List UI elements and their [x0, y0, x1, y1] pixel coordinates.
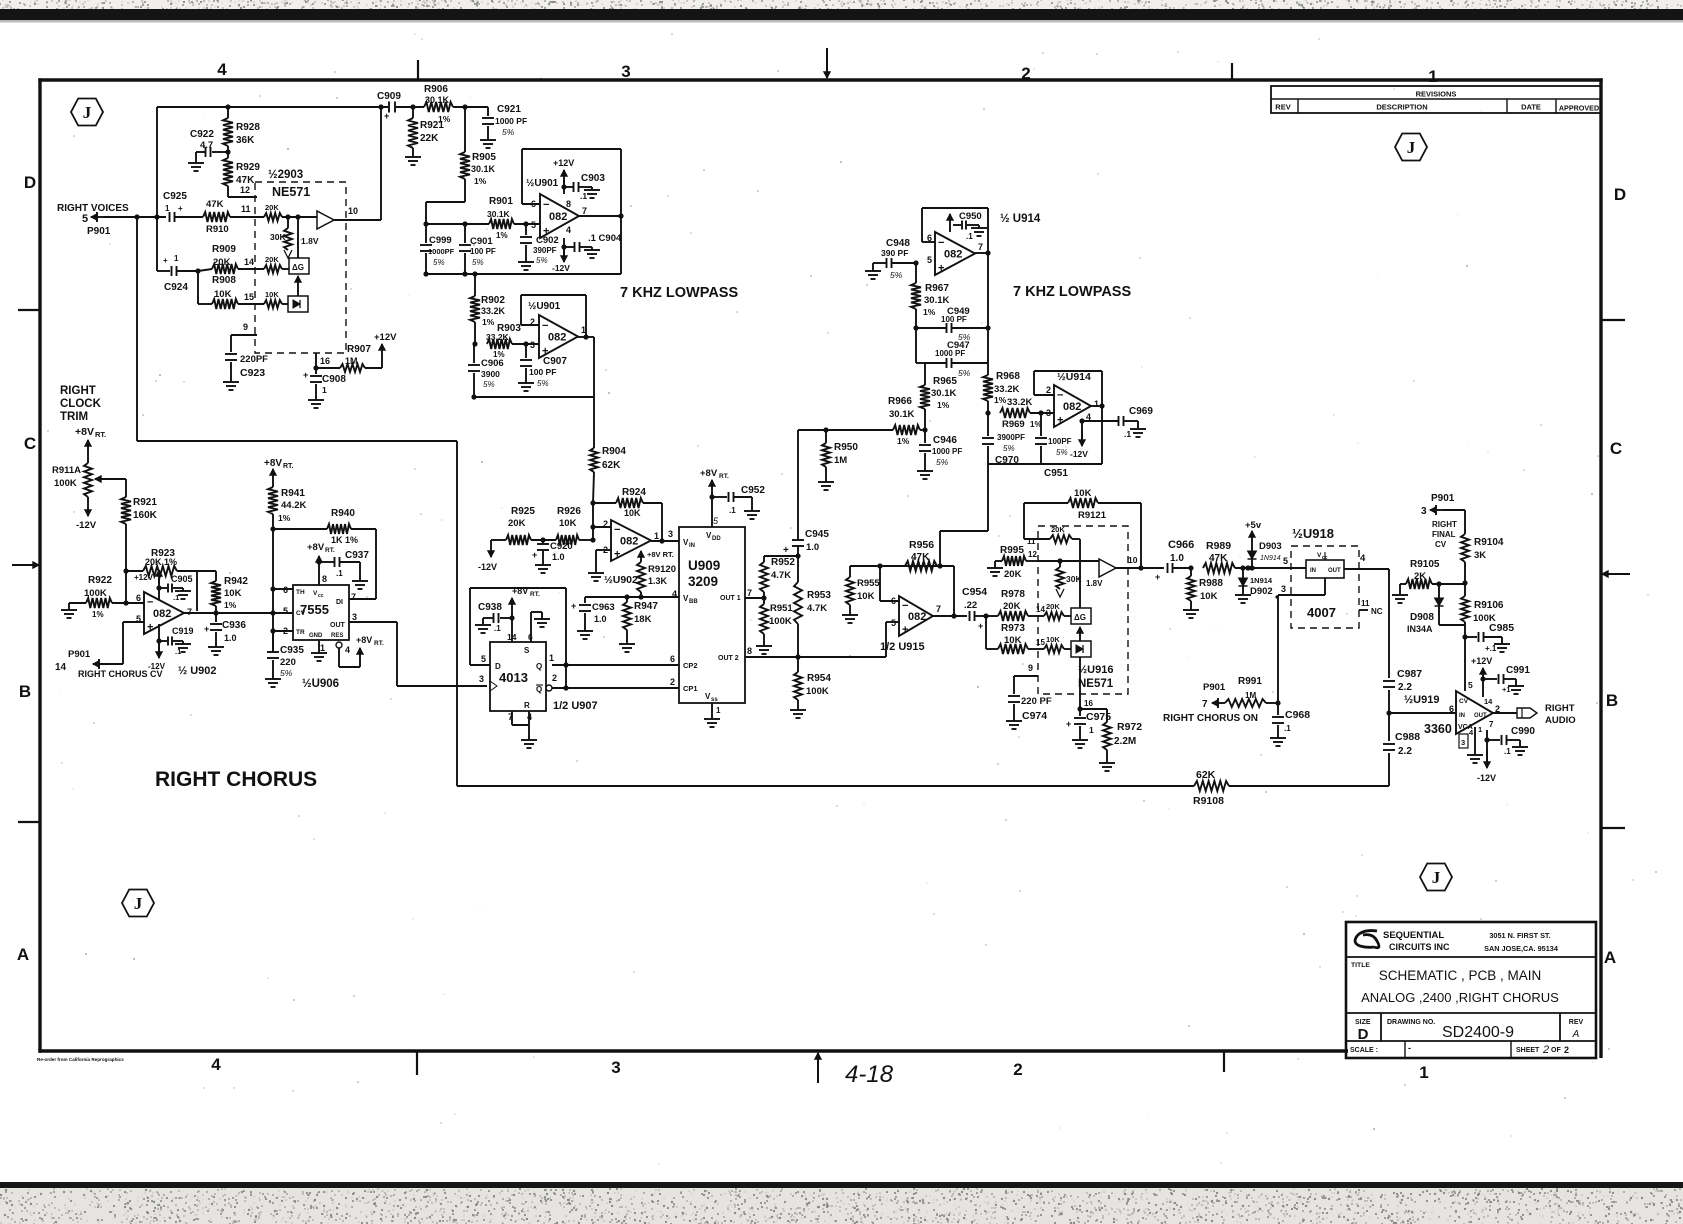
svg-text:C902: C902 [536, 235, 559, 246]
svg-text:C988: C988 [1395, 731, 1420, 743]
svg-text:+: + [902, 624, 908, 636]
svg-text:-12V: -12V [1477, 773, 1496, 783]
svg-text:5%: 5% [280, 668, 293, 678]
svg-text:R989: R989 [1206, 540, 1231, 552]
svg-text:2.2: 2.2 [1398, 746, 1412, 757]
pin 16 capacitor C975 [1079, 694, 1081, 716]
svg-text:3: 3 [1281, 584, 1286, 594]
svg-text:J: J [1432, 868, 1441, 887]
svg-text:16: 16 [1084, 699, 1093, 708]
resistor R906 30.1K [424, 102, 453, 112]
svg-text:+12V: +12V [1471, 656, 1492, 666]
op-amp U901a 082 [540, 194, 579, 238]
svg-text:2: 2 [603, 519, 608, 529]
capacitor C905 [156, 585, 161, 590]
resistor R903 33.2K [472, 341, 477, 346]
resistor R953 4.7K [797, 556, 799, 582]
svg-text:IN34A: IN34A [1407, 624, 1433, 634]
svg-text:OUT 2: OUT 2 [718, 655, 739, 662]
svg-text:+8V: +8V [75, 426, 94, 438]
wire lowpass1 input rail [426, 223, 489, 225]
wire dry-signal drop x457 [456, 441, 458, 786]
registration arrow top center [826, 48, 828, 78]
capacitor C945 1.0 [792, 539, 804, 541]
svg-text:½U901: ½U901 [528, 301, 561, 312]
svg-text:ΔG: ΔG [1074, 613, 1086, 622]
svg-text:1.0: 1.0 [552, 552, 565, 562]
svg-text:20K: 20K [265, 255, 279, 264]
svg-text:J: J [1407, 138, 1416, 157]
svg-text:R907: R907 [347, 344, 371, 355]
svg-text:RIGHT CHORUS: RIGHT CHORUS [155, 768, 317, 791]
svg-text:R: R [524, 701, 530, 710]
svg-text:5: 5 [283, 606, 288, 616]
svg-text:4-18: 4-18 [845, 1061, 894, 1088]
svg-text:R9108: R9108 [1193, 795, 1224, 807]
svg-text:1: 1 [1089, 725, 1094, 735]
svg-text:RT.: RT. [530, 591, 540, 598]
svg-text:10K: 10K [1074, 488, 1092, 499]
wire pin 6 ground [530, 612, 532, 642]
svg-text:.22: .22 [964, 600, 977, 611]
drawing border frame [38, 78, 41, 1052]
svg-text:RIGHT VOICES: RIGHT VOICES [57, 203, 129, 214]
svg-text:1%: 1% [1030, 420, 1042, 429]
svg-text:ANALOG ,2400 ,RIGHT CHORUS: ANALOG ,2400 ,RIGHT CHORUS [1361, 990, 1559, 1005]
capacitor C921 1000PF [487, 107, 489, 116]
svg-text:R904: R904 [602, 446, 626, 457]
svg-text:1: 1 [654, 531, 659, 541]
svg-text:082: 082 [153, 608, 171, 620]
svg-text:R967: R967 [925, 283, 949, 294]
wire S pullup +8VRT [511, 618, 513, 642]
svg-text:½U906: ½U906 [302, 678, 339, 690]
resistor R966 30.1K [893, 425, 920, 435]
svg-text:R908: R908 [212, 275, 236, 286]
capacitor C947 1000PF [925, 362, 946, 364]
svg-text:3900: 3900 [481, 369, 500, 379]
capacitor C938 [500, 617, 512, 619]
svg-text:47K: 47K [1209, 553, 1228, 564]
svg-text:RT.: RT. [95, 430, 106, 439]
resistor R904 62K [593, 446, 595, 448]
svg-text:B: B [19, 682, 31, 701]
svg-text:RES: RES [331, 633, 343, 639]
svg-text:+8V: +8V [356, 635, 372, 645]
svg-text:C924: C924 [164, 282, 188, 293]
svg-text:C906: C906 [481, 358, 504, 369]
wire rect2 to pin 16 [1079, 657, 1081, 694]
svg-text:−: − [1057, 389, 1063, 401]
svg-text:.1: .1 [966, 232, 973, 241]
svg-text:+12V: +12V [374, 332, 397, 343]
svg-text:Q: Q [536, 662, 542, 671]
svg-text:47K: 47K [206, 199, 224, 210]
resistor 20K dG2 [1044, 612, 1064, 620]
pin 11 NC U918 [1359, 609, 1368, 611]
svg-text:APPROVED: APPROVED [1559, 104, 1599, 113]
capacitor C966 1.0 [1141, 567, 1164, 569]
ground C922 [195, 160, 197, 163]
svg-text:082: 082 [944, 249, 962, 261]
svg-text:20K: 20K [1003, 601, 1021, 612]
svg-text:C922: C922 [190, 129, 214, 140]
wire lowpass2 to U915 [940, 530, 988, 532]
svg-text:C925: C925 [163, 191, 187, 202]
svg-text:R978: R978 [1001, 589, 1025, 600]
capacitor C963 1.0 [584, 597, 586, 603]
svg-text:R906: R906 [424, 84, 448, 95]
svg-text:OF: OF [1551, 1047, 1561, 1054]
wire R pins to ground [511, 711, 513, 725]
capacitor C987 2.2 [1383, 680, 1395, 682]
svg-text:1.0: 1.0 [224, 633, 237, 643]
resistor R950 1M [823, 427, 828, 432]
svg-text:D: D [1358, 1026, 1369, 1043]
svg-text:C963: C963 [592, 602, 615, 613]
svg-text:R973: R973 [1001, 623, 1025, 634]
svg-text:R910: R910 [206, 224, 229, 235]
svg-text:33.2K: 33.2K [481, 306, 506, 316]
svg-text:RIGHT: RIGHT [60, 385, 96, 397]
svg-text:1.0: 1.0 [1170, 553, 1184, 564]
capacitor C901 100PF [464, 224, 466, 243]
svg-text:P901: P901 [1203, 682, 1226, 693]
wire lowpass1b bottom rail [474, 396, 594, 398]
resistor R9104 3K [1461, 534, 1469, 562]
svg-text:½U901: ½U901 [526, 178, 559, 189]
svg-text:−: − [902, 600, 908, 612]
svg-text:6: 6 [283, 585, 288, 595]
svg-text:DRAWING NO.: DRAWING NO. [1387, 1019, 1435, 1026]
capacitor C969 [1118, 416, 1120, 426]
resistor R929 47K [223, 158, 233, 186]
svg-text:SHEET: SHEET [1516, 1047, 1540, 1054]
capacitor C951 100PF [1040, 413, 1042, 436]
svg-text:1%: 1% [994, 395, 1007, 405]
wire U914a feedback loop [922, 207, 988, 209]
svg-text:3: 3 [621, 62, 630, 81]
svg-text:SEQUENTIAL: SEQUENTIAL [1383, 930, 1444, 941]
svg-text:8: 8 [566, 199, 571, 209]
svg-text:10: 10 [1128, 555, 1138, 565]
flip-flop U907 4013 [490, 642, 546, 711]
wire U902b plus input ground [596, 549, 611, 551]
svg-text:+12V: +12V [553, 158, 574, 168]
svg-text:1: 1 [1428, 67, 1437, 86]
zone tick top 2-1 [1231, 63, 1233, 80]
svg-text:3: 3 [668, 529, 673, 539]
svg-text:1%: 1% [92, 610, 104, 619]
wire 7555 CV [270, 610, 275, 615]
resistor R926 10K [556, 535, 579, 545]
svg-text:3051 N. FIRST ST.: 3051 N. FIRST ST. [1489, 931, 1550, 940]
capacitor C937 [319, 561, 334, 563]
wire 7555 OUT to 4013 clock [349, 621, 397, 623]
svg-text:5%: 5% [502, 127, 515, 137]
svg-text:.1: .1 [580, 191, 587, 201]
svg-text:6: 6 [136, 593, 141, 603]
svg-text:-12V: -12V [552, 263, 570, 273]
wire 7555 TR [270, 628, 275, 633]
svg-text:−: − [543, 199, 549, 211]
capacitor C991 [1480, 676, 1485, 681]
resistor R940 1K [327, 524, 351, 534]
wire dG2 up to opamp [1079, 561, 1081, 608]
svg-text:18K: 18K [634, 614, 652, 625]
svg-text:D908: D908 [1410, 612, 1434, 623]
wire lowpass1b feedback loop [521, 294, 586, 296]
svg-text:R941: R941 [281, 488, 305, 499]
wire lowpass2 down [987, 464, 989, 531]
zone tick left D-C [18, 309, 40, 311]
wire R905 to lowpass input [426, 201, 465, 203]
svg-text:D: D [495, 662, 501, 671]
registration arrow left center [12, 564, 39, 566]
svg-text:.1: .1 [1284, 724, 1291, 733]
svg-text:REV: REV [1275, 103, 1290, 112]
resistor R952 4.7K [763, 556, 765, 562]
power -12V R925 [490, 540, 492, 557]
svg-text:10K: 10K [559, 518, 577, 529]
svg-text:10K: 10K [224, 588, 242, 599]
svg-text:44.2K: 44.2K [281, 500, 306, 511]
resistor R901 30.1K [489, 219, 514, 229]
svg-text:+.1: +.1 [1485, 644, 1497, 653]
svg-text:+: + [303, 370, 308, 380]
ground R921A [412, 154, 414, 157]
svg-text:+8V: +8V [307, 542, 325, 553]
svg-text:+: + [204, 624, 209, 634]
svg-text:Q: Q [536, 685, 542, 694]
svg-text:-: - [1408, 1043, 1411, 1053]
svg-text:4: 4 [1360, 553, 1366, 564]
wire dG to signal [297, 217, 299, 258]
svg-text:082: 082 [549, 211, 567, 223]
resistor R9121 10K [1023, 503, 1025, 539]
svg-text:R9105: R9105 [1410, 559, 1440, 570]
timer U906 7555 [293, 585, 349, 640]
svg-text:7: 7 [351, 592, 356, 602]
svg-text:9: 9 [1028, 663, 1033, 673]
svg-text:C974: C974 [1022, 710, 1047, 722]
svg-text:30.1K: 30.1K [471, 164, 496, 174]
svg-text:NE571: NE571 [272, 185, 310, 199]
svg-text:R951: R951 [770, 603, 793, 614]
svg-text:10K: 10K [265, 290, 279, 299]
svg-text:SAN JOSE,CA. 95134: SAN JOSE,CA. 95134 [1484, 944, 1559, 953]
wire 7555 TH [270, 586, 275, 591]
svg-text:1.8V: 1.8V [1086, 579, 1103, 588]
svg-text:CV: CV [296, 610, 306, 617]
svg-text:+: + [178, 204, 183, 213]
svg-text:6: 6 [670, 654, 675, 664]
wire pin 3 drop [1277, 595, 1279, 703]
svg-text:+8V: +8V [700, 468, 718, 479]
svg-text:AUDIO: AUDIO [1545, 715, 1576, 726]
resistor 20K dG input [264, 265, 282, 273]
svg-text:22K: 22K [420, 133, 439, 144]
svg-text:47K: 47K [911, 552, 930, 563]
svg-text:5%: 5% [537, 379, 549, 388]
wire rect to dG [297, 276, 299, 296]
svg-text:OUT 1: OUT 1 [720, 595, 741, 602]
svg-text:C987: C987 [1397, 668, 1422, 680]
wire VBB network [585, 596, 679, 598]
capacitor C903 decoupling [561, 184, 566, 189]
svg-text:7: 7 [936, 604, 941, 614]
wire U902b out to VIN [651, 540, 679, 542]
svg-text:20K: 20K [1004, 569, 1022, 580]
svg-text:1.3K: 1.3K [648, 576, 668, 586]
resistor 10K rect input [264, 300, 282, 308]
svg-text:R953: R953 [807, 590, 831, 601]
svg-text:15: 15 [1036, 638, 1045, 647]
svg-text:DD: DD [712, 536, 721, 542]
revisions table [1271, 86, 1601, 113]
resistor R908 10K [197, 271, 199, 304]
diode D902 to ground [1240, 565, 1245, 570]
svg-text:3: 3 [530, 340, 535, 350]
svg-text:A: A [1604, 948, 1616, 967]
svg-text:3360: 3360 [1424, 722, 1452, 736]
svg-text:100PF: 100PF [1048, 437, 1072, 446]
resistor R989 47K [1203, 563, 1235, 573]
wire OUT1 [745, 597, 764, 599]
capacitor C919 -12V U902a [158, 624, 160, 652]
svg-text:33.2K: 33.2K [994, 384, 1019, 395]
wire C945 to mix node [797, 430, 799, 540]
svg-text:SIZE: SIZE [1355, 1019, 1371, 1026]
wire OUT2 to U915 plus [798, 656, 886, 658]
svg-text:5%: 5% [472, 258, 484, 267]
svg-text:FINAL: FINAL [1432, 530, 1456, 539]
resistor R9106 100K [1464, 583, 1466, 596]
svg-text:1%: 1% [482, 317, 495, 327]
svg-text:5: 5 [927, 255, 932, 265]
zone tick top 4-3 [417, 60, 419, 80]
wire R941 to R940 [270, 526, 275, 531]
wire R906 to C921 R905 [453, 106, 488, 108]
capacitor C952 [712, 496, 727, 498]
svg-text:CLOCK: CLOCK [60, 398, 102, 410]
svg-text:RT.: RT. [283, 463, 294, 470]
capacitor C985 [1462, 634, 1467, 639]
zone tick right B-A [1601, 827, 1625, 829]
svg-text:J: J [83, 103, 92, 122]
svg-text:R991: R991 [1238, 676, 1262, 687]
svg-text:D903: D903 [1259, 541, 1282, 552]
svg-text:C907: C907 [543, 356, 567, 367]
wire U903a out pin 10 [334, 219, 381, 221]
svg-text:CP1: CP1 [683, 684, 698, 693]
svg-text:36K: 36K [236, 135, 255, 146]
capacitor C950 [949, 228, 951, 232]
pin 9 capacitor C923 220PF [231, 334, 257, 336]
svg-text:4.7: 4.7 [200, 140, 213, 151]
svg-text:10: 10 [348, 206, 358, 216]
svg-text:5%: 5% [958, 332, 971, 342]
power +12V R907 [381, 344, 383, 368]
capacitor C924 [156, 217, 158, 271]
title block [1346, 922, 1596, 1058]
svg-text:1N914: 1N914 [1260, 555, 1281, 562]
svg-text:+8V: +8V [512, 586, 528, 596]
trimmer 30K U903a [287, 217, 289, 228]
svg-text:+: + [614, 549, 620, 561]
wire U915 feedback loop [850, 565, 954, 567]
svg-text:20K: 20K [265, 203, 279, 212]
svg-text:1: 1 [1419, 1063, 1428, 1082]
svg-text:1%: 1% [278, 513, 291, 523]
svg-text:160K: 160K [133, 510, 158, 521]
svg-text:5%: 5% [1003, 444, 1015, 453]
svg-text:C903: C903 [581, 173, 605, 184]
ground U919 [1474, 727, 1476, 752]
wire Qbar to D loop [565, 588, 567, 688]
svg-text:C954: C954 [962, 586, 987, 598]
wire Q to CP2 [552, 664, 679, 666]
svg-text:R9104: R9104 [1474, 537, 1504, 548]
delta-G cell U916 [1071, 608, 1091, 624]
svg-text:082: 082 [1063, 401, 1081, 413]
svg-text:+8V: +8V [264, 458, 282, 469]
wire C945 node rail [764, 555, 798, 557]
svg-text:5: 5 [891, 618, 896, 628]
wire lowpass2 bottom rail [988, 463, 1102, 465]
capacitor C948 390PF [872, 268, 874, 271]
svg-text:R954: R954 [807, 673, 831, 684]
svg-text:-12V: -12V [1070, 449, 1088, 459]
svg-text:C990: C990 [1511, 726, 1535, 737]
resistor R954 100K [797, 657, 799, 672]
wire feedback to R942 top [197, 570, 216, 572]
svg-text:C919: C919 [172, 626, 194, 636]
delta-G cell U903 [289, 258, 309, 274]
svg-text:ss: ss [711, 697, 718, 703]
wire opamp U901b output [578, 336, 594, 338]
svg-text:R9106: R9106 [1474, 600, 1504, 611]
svg-text:1: 1 [165, 204, 170, 213]
resistor R991 1M [1275, 700, 1280, 705]
svg-text:30.1K: 30.1K [487, 209, 511, 219]
power +12V U902a [158, 578, 160, 600]
svg-text:R965: R965 [933, 376, 957, 387]
svg-text:1%: 1% [474, 176, 487, 186]
svg-text:R942: R942 [224, 576, 248, 587]
pin 9 capacitor C974 220PF [1014, 675, 1038, 677]
VCA U919 3360 [1456, 691, 1493, 734]
svg-text:+: + [938, 263, 944, 275]
svg-text:TH: TH [296, 589, 305, 596]
svg-text:10K: 10K [624, 508, 641, 518]
svg-text:SCHEMATIC , PCB , MAIN: SCHEMATIC , PCB , MAIN [1379, 968, 1542, 983]
svg-text:-12V: -12V [478, 562, 497, 572]
svg-text:1M: 1M [345, 356, 358, 366]
svg-text:C966: C966 [1168, 539, 1194, 551]
svg-text:R911A: R911A [52, 465, 81, 476]
top black scan bar [0, 9, 1683, 20]
svg-text:NE571: NE571 [1078, 678, 1114, 690]
wire U918 out to C987 [1388, 569, 1390, 678]
svg-text:CV: CV [1459, 698, 1469, 705]
svg-text:R902: R902 [481, 295, 505, 306]
svg-text:14: 14 [55, 662, 67, 673]
svg-text:½ U902: ½ U902 [178, 665, 217, 677]
connector RIGHT AUDIO out [1517, 708, 1537, 718]
capacitor C936 1.0 [215, 613, 217, 622]
resistor R923 20K feedback [123, 568, 128, 573]
